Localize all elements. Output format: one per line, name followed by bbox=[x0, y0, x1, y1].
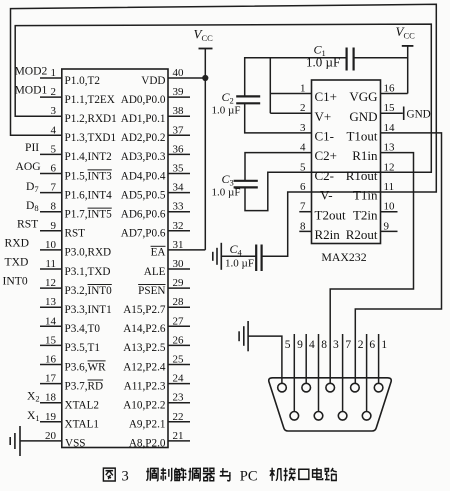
svg-text:3: 3 bbox=[51, 105, 57, 117]
svg-text:24: 24 bbox=[173, 373, 185, 385]
svg-text:XTAL1: XTAL1 bbox=[65, 419, 100, 431]
wire stub pin 25 of U1 bbox=[168, 364, 190, 366]
svg-text:P1.3,TXD1: P1.3,TXD1 bbox=[65, 132, 117, 144]
svg-text:9: 9 bbox=[384, 220, 390, 232]
svg-text:22: 22 bbox=[173, 411, 184, 423]
svg-text:ALE: ALE bbox=[144, 266, 166, 278]
svg-text:AOG: AOG bbox=[16, 160, 42, 173]
svg-text:P3.4,T0: P3.4,T0 bbox=[65, 323, 101, 335]
svg-text:27: 27 bbox=[173, 315, 185, 327]
svg-text:28: 28 bbox=[173, 296, 185, 308]
capacitor C4 right plate bbox=[261, 245, 263, 272]
svg-text:11: 11 bbox=[384, 181, 395, 193]
svg-text:V+: V+ bbox=[315, 109, 332, 124]
op-amp U1 8051 microcontroller body bbox=[62, 69, 168, 448]
caption char kou bbox=[299, 469, 309, 479]
wire stub pin 1 of U1 bbox=[40, 77, 62, 79]
overbar on INT0 of U1 pin 12 bbox=[88, 284, 112, 286]
capacitor C2 top plate bbox=[236, 95, 260, 97]
connector pin 3 hole bbox=[326, 383, 335, 392]
caption char diao bbox=[146, 468, 158, 481]
svg-text:25: 25 bbox=[173, 354, 185, 366]
svg-text:1: 1 bbox=[300, 83, 306, 95]
svg-text:A8,P2.0: A8,P2.0 bbox=[129, 438, 166, 450]
svg-text:TXD: TXD bbox=[5, 256, 29, 269]
svg-text:6: 6 bbox=[51, 163, 57, 175]
svg-text:P3.7,RD: P3.7,RD bbox=[65, 380, 104, 392]
wire stub pin 7 of U1 bbox=[40, 192, 62, 194]
svg-text:R1out: R1out bbox=[346, 168, 378, 183]
svg-text:C1-: C1- bbox=[315, 129, 335, 144]
svg-text:P3.1,TXD: P3.1,TXD bbox=[65, 266, 111, 278]
svg-text:3: 3 bbox=[333, 339, 339, 351]
wire stub pin 11 of U1 bbox=[40, 268, 62, 270]
svg-text:9: 9 bbox=[297, 339, 303, 351]
svg-text:R1in: R1in bbox=[352, 148, 378, 163]
svg-text:31: 31 bbox=[173, 239, 184, 251]
svg-text:R2in: R2in bbox=[315, 227, 341, 242]
ground at C4 short bar bbox=[212, 252, 214, 261]
svg-text:A11,P2.3: A11,P2.3 bbox=[124, 380, 166, 392]
svg-text:P1.1,T2EX: P1.1,T2EX bbox=[65, 94, 115, 106]
svg-text:AD1,P0.1: AD1,P0.1 bbox=[121, 113, 166, 125]
connector pin 6 hole bbox=[362, 412, 371, 421]
caption char yu bbox=[220, 468, 230, 481]
svg-text:C2+: C2+ bbox=[315, 148, 338, 163]
wire stub pin 39 of U1 bbox=[168, 96, 190, 98]
svg-text:PII: PII bbox=[25, 141, 39, 154]
caption char dian bbox=[313, 468, 323, 480]
wire stub pin 9 of U2 bbox=[381, 230, 398, 232]
wire stub pin 10 of U2 bbox=[381, 211, 398, 213]
caption char ji bbox=[270, 468, 282, 481]
svg-text:A10,P2.2: A10,P2.2 bbox=[123, 400, 165, 412]
wire stub pin 8 of U1 bbox=[40, 211, 62, 213]
svg-text:V-: V- bbox=[320, 188, 333, 203]
wire stub pin 12 of U1 bbox=[40, 287, 62, 289]
connector pin 8 hole bbox=[314, 412, 323, 421]
svg-text:P1.4,INT2: P1.4,INT2 bbox=[65, 151, 112, 163]
connector pin 4 hole bbox=[302, 383, 311, 392]
capacitor C1 left plate bbox=[346, 48, 348, 71]
wire V+ pin2 stub bbox=[270, 112, 311, 114]
wire stub pin 17 of U1 bbox=[40, 383, 62, 385]
svg-text:16: 16 bbox=[45, 354, 57, 366]
wire stub pin 23 of U1 bbox=[168, 402, 190, 404]
svg-text:P1.6,INT4: P1.6,INT4 bbox=[65, 189, 113, 201]
svg-text:PC: PC bbox=[240, 469, 258, 485]
svg-text:17: 17 bbox=[45, 373, 57, 385]
svg-text:4: 4 bbox=[300, 142, 306, 154]
wire stub pin 10 of U1 bbox=[40, 249, 62, 251]
svg-text:15: 15 bbox=[45, 334, 57, 346]
svg-text:16: 16 bbox=[384, 83, 396, 95]
capacitor C1 right plate bbox=[353, 48, 355, 71]
svg-text:6: 6 bbox=[300, 181, 306, 193]
svg-text:15: 15 bbox=[384, 102, 396, 114]
caption char diao 2 bbox=[188, 468, 200, 481]
wire stub pin 34 of U1 bbox=[168, 192, 190, 194]
wire VDD pin40 to Vcc junction bbox=[168, 77, 205, 79]
svg-text:2: 2 bbox=[300, 102, 306, 114]
caption char jie bbox=[174, 468, 186, 481]
svg-text:39: 39 bbox=[173, 86, 185, 98]
wire stub pin 13 of U1 bbox=[40, 306, 62, 308]
svg-text:VDD: VDD bbox=[141, 75, 165, 87]
svg-text:30: 30 bbox=[173, 258, 185, 270]
op-amp U2 MAX232 body bbox=[312, 80, 381, 244]
svg-text:AD4,P0.4: AD4,P0.4 bbox=[121, 170, 166, 182]
caption char lu bbox=[325, 468, 337, 480]
svg-text:1.0 µF: 1.0 µF bbox=[212, 105, 241, 117]
wire GND pin15 stub bbox=[381, 112, 403, 114]
svg-text:9: 9 bbox=[51, 220, 57, 232]
power Vcc symbol left bbox=[199, 48, 213, 50]
svg-text:RST: RST bbox=[65, 228, 86, 240]
svg-text:1.0 µF: 1.0 µF bbox=[225, 258, 254, 270]
svg-text:18: 18 bbox=[45, 392, 57, 404]
svg-text:RST: RST bbox=[17, 217, 38, 230]
wire stub pin 5 of U1 bbox=[40, 153, 62, 155]
wire stub pin 19 of U1 bbox=[40, 421, 62, 423]
wire stub pin 8 of U2 bbox=[299, 230, 311, 232]
svg-text:2: 2 bbox=[51, 86, 57, 98]
wire stub pin 32 of U1 bbox=[168, 230, 190, 232]
overbar on RD of U1 pin 17 bbox=[88, 379, 104, 381]
wire stub DB9 pin8 bbox=[318, 334, 320, 412]
wire stub pin 38 of U1 bbox=[168, 115, 190, 117]
capacitor C3 bottom plate bbox=[234, 186, 258, 188]
overbar on INT5 of U1 pin 8 bbox=[88, 207, 112, 209]
svg-text:36: 36 bbox=[173, 143, 185, 155]
wire stub pin 14 of U1 bbox=[40, 325, 62, 327]
svg-text:MOD1: MOD1 bbox=[15, 84, 48, 97]
wire Vcc left drop bbox=[204, 49, 206, 79]
wire C2 bottom to C1- pin3 bbox=[245, 103, 312, 133]
svg-text:C2-: C2- bbox=[315, 168, 335, 183]
ground at DB9 middle bar bbox=[243, 326, 245, 346]
svg-text:AD7,P0.6: AD7,P0.6 bbox=[121, 228, 166, 240]
svg-text:T2out: T2out bbox=[315, 207, 346, 222]
svg-text:P1.7,INT5: P1.7,INT5 bbox=[65, 209, 113, 221]
wire stub pin 24 of U1 bbox=[168, 383, 190, 385]
svg-text:6: 6 bbox=[369, 339, 375, 351]
svg-text:P1.2,RXD1: P1.2,RXD1 bbox=[65, 113, 117, 125]
svg-text:7: 7 bbox=[300, 201, 306, 213]
wire node down to V+ pin2 bbox=[269, 58, 271, 113]
svg-text:1.0 µF: 1.0 µF bbox=[306, 55, 340, 70]
svg-text:AD2,P0.2: AD2,P0.2 bbox=[121, 132, 166, 144]
svg-text:EA: EA bbox=[151, 247, 166, 259]
svg-text:P3.6,WR: P3.6,WR bbox=[65, 361, 107, 373]
svg-text:20: 20 bbox=[45, 430, 57, 442]
svg-text:AD5,P0.5: AD5,P0.5 bbox=[121, 189, 166, 201]
wire stub DB9 pin9 bbox=[293, 334, 295, 412]
svg-text:2: 2 bbox=[358, 339, 364, 351]
ground at VSS short bar bbox=[9, 437, 11, 445]
wire ground to VSS pin20 bbox=[20, 440, 62, 442]
wire C1+ pin1 stub bbox=[270, 93, 311, 95]
wire outer top loop: 8051 P1.3/TXD1 pin4 to MAX232 T1in pin11 bbox=[11, 4, 437, 192]
ground at DB9 tall bar bbox=[247, 321, 249, 351]
capacitor C3 top plate bbox=[234, 180, 258, 182]
svg-text:RXD: RXD bbox=[5, 236, 29, 249]
ground at DB9 short bar bbox=[238, 331, 240, 341]
overbar on PSEN of U1 pin 29 bbox=[138, 284, 165, 286]
svg-text:8: 8 bbox=[321, 339, 327, 351]
svg-text:A9,P2.1: A9,P2.1 bbox=[129, 419, 166, 431]
wire stub pin 21 of U1 bbox=[168, 440, 190, 442]
svg-text:10: 10 bbox=[384, 201, 396, 213]
overbar on WR of U1 pin 16 bbox=[88, 360, 106, 362]
wire stub DB9 pin6 bbox=[366, 334, 368, 412]
ground bar at pin15 bbox=[403, 107, 405, 121]
svg-text:R2out: R2out bbox=[346, 227, 378, 242]
wire stub pin 22 of U1 bbox=[168, 421, 190, 423]
ground at VSS middle bar bbox=[14, 433, 16, 449]
connector J1 DB9 shell bbox=[269, 378, 391, 431]
wire Vcc right drop to VGG pin16 bbox=[407, 46, 409, 94]
wire V- pin6 to C4 right plate bbox=[262, 192, 312, 256]
svg-text:VSS: VSS bbox=[65, 438, 86, 450]
wire C4 left plate to ground bbox=[221, 255, 256, 257]
svg-text:5: 5 bbox=[51, 143, 57, 155]
svg-text:1: 1 bbox=[51, 67, 57, 79]
wire stub pin 2 of U1 bbox=[40, 96, 62, 98]
svg-text:21: 21 bbox=[173, 430, 184, 442]
svg-text:10: 10 bbox=[45, 239, 57, 251]
svg-text:8: 8 bbox=[300, 220, 306, 232]
junction dot VDD node bbox=[202, 75, 208, 81]
overbar on EA of U1 pin 31 bbox=[151, 245, 166, 247]
svg-text:INT0: INT0 bbox=[3, 275, 28, 288]
svg-text:T2in: T2in bbox=[353, 207, 378, 222]
svg-text:14: 14 bbox=[45, 315, 57, 327]
wire stub pin 7 of U2 bbox=[299, 211, 311, 213]
ground at VSS tall bar bbox=[19, 426, 21, 456]
svg-text:23: 23 bbox=[173, 392, 185, 404]
ground at C4 tall bar bbox=[220, 243, 222, 270]
svg-text:A13,P2.5: A13,P2.5 bbox=[123, 342, 166, 354]
svg-text:A14,P2.6: A14,P2.6 bbox=[123, 323, 166, 335]
svg-text:13: 13 bbox=[45, 296, 57, 308]
wire stub pin 6 of U1 bbox=[40, 173, 62, 175]
wire C3 bottom to C2- pin5 bbox=[245, 172, 312, 210]
wire stub DB9 pin1 bbox=[378, 334, 380, 383]
svg-text:AD0,P0.0: AD0,P0.0 bbox=[121, 94, 166, 106]
svg-text:P3.3,INT1: P3.3,INT1 bbox=[65, 304, 112, 316]
wire VDD rail down to EA bbox=[204, 78, 206, 250]
wire stub pin 37 of U1 bbox=[168, 134, 190, 136]
wire stub pin 30 of U1 bbox=[168, 268, 190, 270]
svg-text:T1in: T1in bbox=[353, 188, 378, 203]
caption char jie2 bbox=[284, 468, 296, 481]
svg-text:AD6,P0.6: AD6,P0.6 bbox=[121, 209, 166, 221]
svg-text:MAX232: MAX232 bbox=[321, 250, 366, 264]
svg-text:38: 38 bbox=[173, 105, 185, 117]
wire inner top loop: 8051 P1.2/RXD1 pin3 to MAX232 R1out pin12 bbox=[15, 24, 431, 172]
caption char zhi bbox=[161, 468, 172, 481]
svg-text:VGG: VGG bbox=[349, 89, 377, 104]
svg-text:1.0 µF: 1.0 µF bbox=[212, 187, 241, 199]
connector pin 5 hole bbox=[278, 383, 287, 392]
svg-text:PSEN: PSEN bbox=[138, 285, 165, 297]
svg-text:7: 7 bbox=[345, 339, 351, 351]
wire T1out pin14 to DB9 pin2 bbox=[355, 133, 441, 383]
svg-text:3: 3 bbox=[300, 122, 306, 134]
svg-text:5: 5 bbox=[285, 339, 291, 351]
svg-text:14: 14 bbox=[384, 122, 396, 134]
power Vcc symbol right bbox=[402, 45, 414, 47]
svg-text:34: 34 bbox=[173, 182, 185, 194]
wire R1in pin13 to DB9 pin3 bbox=[330, 153, 413, 384]
wire stub pin 27 of U1 bbox=[168, 325, 190, 327]
svg-text:29: 29 bbox=[173, 277, 185, 289]
svg-text:12: 12 bbox=[45, 277, 56, 289]
svg-text:40: 40 bbox=[173, 67, 185, 79]
wire stub pin 28 of U1 bbox=[168, 306, 190, 308]
svg-text:P3.0,RXD: P3.0,RXD bbox=[65, 247, 112, 259]
ground at C4 middle bar bbox=[216, 248, 218, 265]
svg-text:MOD2: MOD2 bbox=[15, 65, 48, 78]
svg-text:33: 33 bbox=[173, 201, 185, 213]
caption char tu (figure) bbox=[103, 468, 115, 481]
svg-text:P1.0,T2: P1.0,T2 bbox=[65, 75, 100, 87]
svg-text:4: 4 bbox=[309, 339, 315, 351]
wire stub pin 9 of U1 bbox=[40, 230, 62, 232]
svg-text:19: 19 bbox=[45, 411, 57, 423]
svg-text:P1.5,INT3: P1.5,INT3 bbox=[65, 170, 113, 182]
svg-text:7: 7 bbox=[51, 182, 57, 194]
svg-text:13: 13 bbox=[384, 142, 396, 154]
svg-text:XTAL2: XTAL2 bbox=[65, 400, 100, 412]
svg-text:37: 37 bbox=[173, 124, 185, 136]
svg-text:3: 3 bbox=[122, 469, 129, 485]
wire ground to DB9 pin5 bbox=[248, 336, 282, 383]
connector pin 9 hole bbox=[290, 412, 299, 421]
svg-text:GND: GND bbox=[349, 109, 377, 124]
wire stub pin 18 of U1 bbox=[40, 402, 62, 404]
wire EA pin31 to VDD rail bbox=[168, 249, 205, 251]
wire C2+ pin4 to C3 top bbox=[245, 153, 312, 181]
wire stub pin 16 of U1 bbox=[40, 364, 62, 366]
wire stub DB9 pin7 bbox=[342, 334, 344, 412]
capacitor C4 left plate bbox=[255, 245, 257, 272]
caption char qi bbox=[203, 468, 215, 480]
svg-text:P3.5,T1: P3.5,T1 bbox=[65, 342, 100, 354]
wire stub pin 36 of U1 bbox=[168, 153, 190, 155]
svg-text:35: 35 bbox=[173, 163, 185, 175]
svg-text:26: 26 bbox=[173, 334, 185, 346]
svg-text:A12,P2.4: A12,P2.4 bbox=[123, 361, 166, 373]
wire stub pin 26 of U1 bbox=[168, 344, 190, 346]
wire VGG pin16 stub bbox=[381, 93, 408, 95]
svg-text:12: 12 bbox=[384, 161, 395, 173]
svg-text:5: 5 bbox=[300, 161, 306, 173]
wire stub DB9 pin4 bbox=[305, 334, 307, 383]
svg-text:AD3,P0.3: AD3,P0.3 bbox=[121, 151, 166, 163]
wire stub pin 15 of U1 bbox=[40, 344, 62, 346]
wire stub pin 33 of U1 bbox=[168, 211, 190, 213]
svg-text:32: 32 bbox=[173, 220, 184, 232]
wire C1 right plate to Vcc rail bbox=[354, 57, 408, 59]
connector pin 2 hole bbox=[351, 383, 360, 392]
capacitor C2 bottom plate bbox=[236, 102, 260, 104]
svg-text:1: 1 bbox=[381, 339, 387, 351]
svg-text:C1+: C1+ bbox=[315, 89, 338, 104]
svg-text:4: 4 bbox=[51, 124, 57, 136]
svg-text:P3.2,INT0: P3.2,INT0 bbox=[65, 285, 113, 297]
overbar on INT3 of U1 pin 6 bbox=[88, 169, 112, 171]
wire stub pin 29 of U1 bbox=[168, 287, 190, 289]
svg-text:GND: GND bbox=[407, 109, 431, 121]
svg-text:11: 11 bbox=[45, 258, 56, 270]
svg-text:8: 8 bbox=[51, 201, 57, 213]
svg-text:A15,P2.7: A15,P2.7 bbox=[123, 304, 166, 316]
wire stub pin 35 of U1 bbox=[168, 173, 190, 175]
svg-text:T1out: T1out bbox=[346, 129, 377, 144]
connector pin 1 hole bbox=[374, 383, 383, 392]
connector pin 7 hole bbox=[338, 412, 347, 421]
wire C2top/C1+ node to C1 left plate bbox=[245, 58, 347, 96]
